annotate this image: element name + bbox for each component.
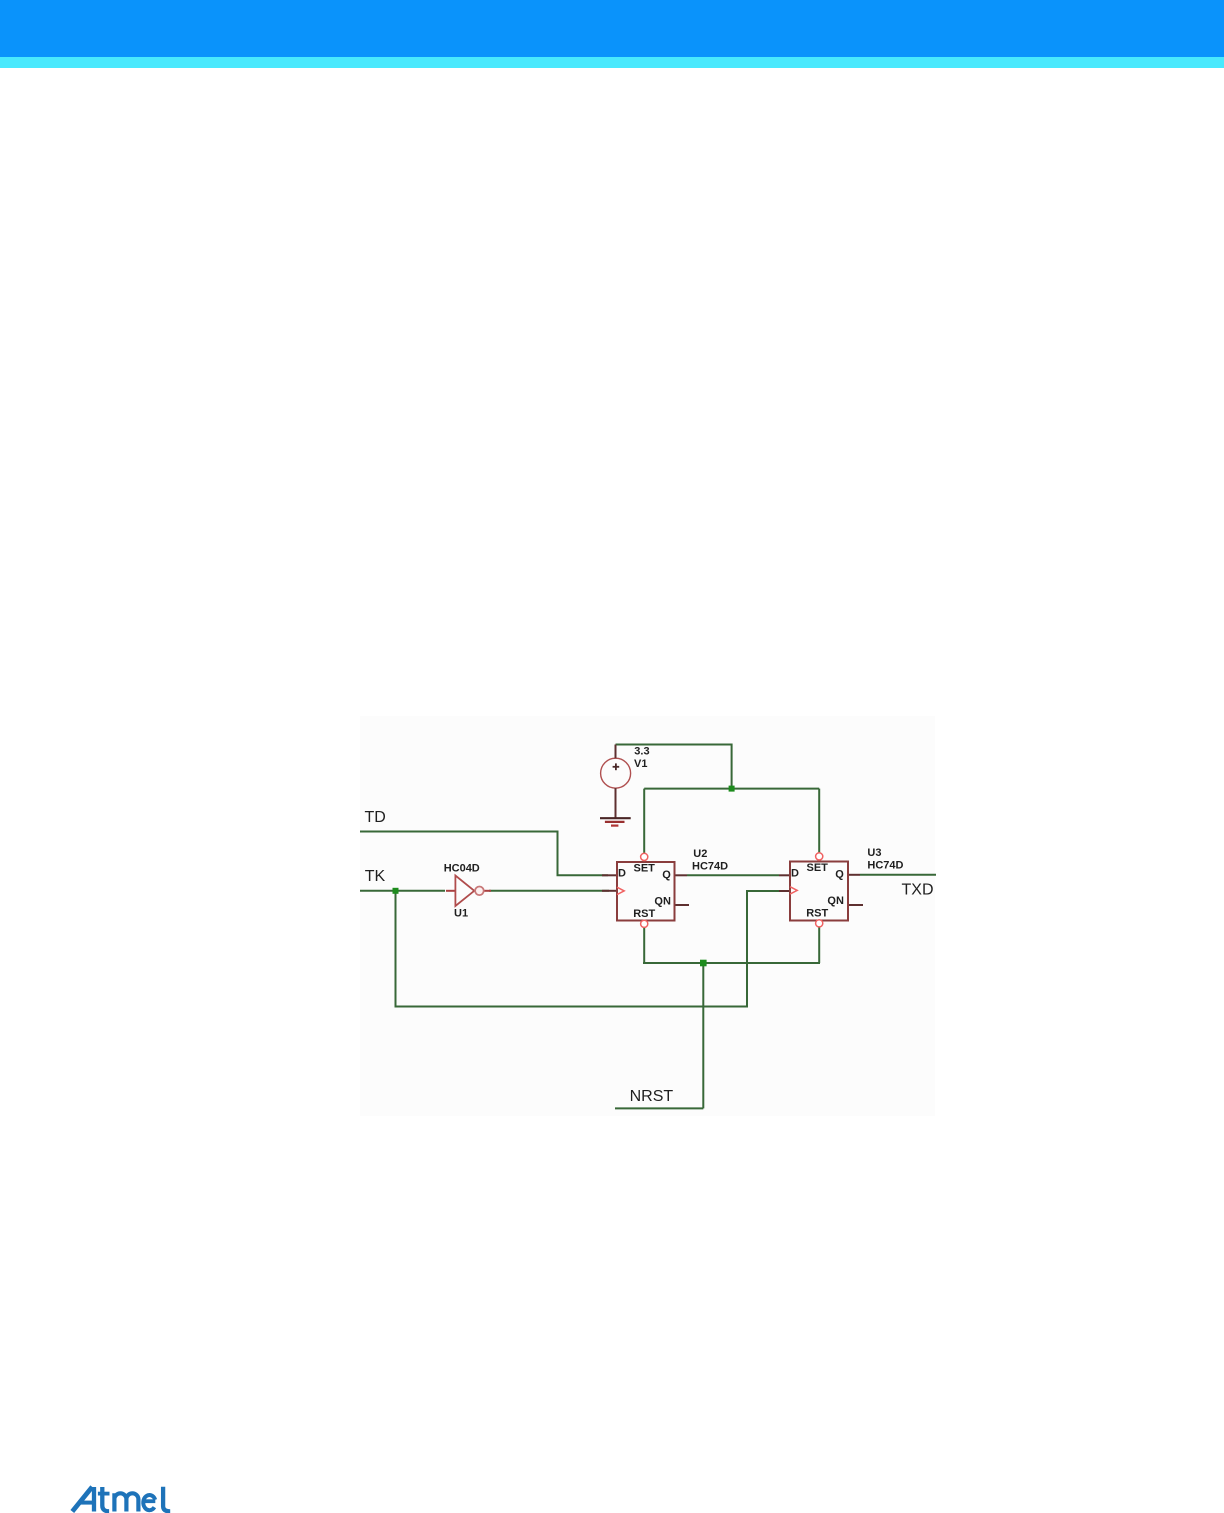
svg-text:HC74D: HC74D xyxy=(867,859,903,871)
svg-text:RST: RST xyxy=(633,908,655,920)
svg-text:SET: SET xyxy=(807,862,829,874)
svg-text:TD: TD xyxy=(365,809,386,826)
svg-text:Q: Q xyxy=(662,869,671,881)
svg-text:D: D xyxy=(618,868,626,880)
svg-text:Q: Q xyxy=(835,869,844,881)
svg-text:HC04D: HC04D xyxy=(444,863,480,875)
svg-text:QN: QN xyxy=(827,895,844,907)
svg-text:NRST: NRST xyxy=(630,1088,674,1105)
svg-text:V1: V1 xyxy=(634,758,647,770)
svg-text:U3: U3 xyxy=(867,847,881,859)
svg-text:TXD: TXD xyxy=(902,882,934,899)
svg-text:3.3: 3.3 xyxy=(634,746,649,758)
svg-text:HC74D: HC74D xyxy=(692,860,728,872)
svg-text:U2: U2 xyxy=(693,848,707,860)
svg-text:SET: SET xyxy=(634,863,656,875)
svg-text:QN: QN xyxy=(654,896,671,908)
svg-text:TK: TK xyxy=(365,868,386,885)
svg-text:U1: U1 xyxy=(454,907,468,919)
svg-text:RST: RST xyxy=(806,908,828,920)
svg-text:D: D xyxy=(791,868,799,880)
